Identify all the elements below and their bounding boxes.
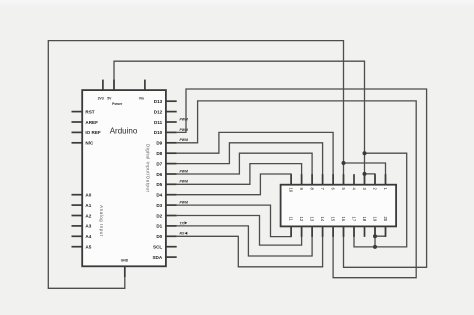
pin 7 stub	[322, 174, 324, 185]
svg-text:15: 15	[331, 217, 336, 222]
label TX arrow	[185, 221, 188, 224]
pin 19 stub	[374, 226, 376, 237]
pin 8 stub	[311, 174, 313, 185]
wire D10 to pin 16	[177, 89, 427, 267]
svg-text:SDA: SDA	[152, 255, 162, 260]
svg-text:A4: A4	[85, 234, 91, 239]
pin 5V stub	[113, 80, 115, 91]
svg-text:PWM: PWM	[180, 117, 188, 121]
pin 20 stub	[385, 226, 387, 237]
pin 3 stub	[364, 174, 366, 185]
pin A2 stub	[72, 215, 83, 217]
pin D8 stub	[166, 152, 177, 154]
pin 18 stub	[364, 226, 366, 237]
svg-text:16: 16	[341, 217, 346, 222]
pin 3V3 stub	[102, 80, 104, 91]
pin 11 stub	[290, 226, 292, 237]
svg-text:A1: A1	[85, 203, 91, 208]
svg-text:Vin: Vin	[139, 97, 144, 101]
svg-text:A3: A3	[85, 224, 91, 229]
svg-text:Digital Input/Output: Digital Input/Output	[145, 144, 150, 193]
pin 2 stub	[374, 174, 376, 185]
svg-text:RST: RST	[85, 109, 94, 114]
pin 1 stub	[385, 174, 387, 185]
pin D5 stub	[166, 183, 177, 185]
pin AREF stub	[72, 121, 83, 123]
svg-text:5V: 5V	[107, 97, 112, 101]
pin N/C stub	[72, 142, 83, 144]
pin Vin stub	[144, 80, 146, 91]
pin 10 stub	[290, 174, 292, 185]
svg-text:17: 17	[351, 217, 356, 222]
wire 5V branch wrapping right side down to pin 17	[354, 153, 407, 247]
wire D1 to pin 13	[177, 226, 312, 256]
svg-text:D11: D11	[154, 120, 163, 125]
pin D9 stub	[166, 142, 177, 144]
pin D3 stub	[166, 204, 177, 206]
pin 17 stub	[353, 226, 355, 237]
node junction pin19-pin17	[373, 245, 377, 249]
node 5V junction upper	[363, 151, 367, 155]
svg-text:N/C: N/C	[85, 141, 94, 146]
svg-text:D8: D8	[156, 151, 162, 156]
pin A0 stub	[72, 194, 83, 196]
wire D3 to pin 11	[177, 205, 291, 237]
pin 4 stub	[353, 174, 355, 185]
wire 5V branch to pin 2	[365, 174, 376, 185]
pin 15 stub	[332, 226, 334, 237]
svg-text:D13: D13	[154, 99, 163, 104]
node GND junction on pin5 drop	[342, 161, 346, 165]
pin SCL stub	[166, 246, 177, 248]
svg-text:TX: TX	[180, 221, 185, 225]
label RX arrow	[185, 232, 188, 235]
node 5V junction at pin2 branch	[363, 172, 367, 176]
wire D7 to pin 7	[177, 143, 323, 185]
svg-text:19: 19	[372, 217, 377, 222]
wire D2 to pin 12	[177, 216, 302, 246]
svg-text:PWM: PWM	[180, 169, 188, 173]
pin 16 stub	[343, 226, 345, 237]
svg-text:SCL: SCL	[153, 245, 162, 250]
wire pin19 to pin20 link	[375, 226, 386, 236]
pin 12 stub	[301, 226, 303, 237]
pin 14 stub	[322, 226, 324, 237]
svg-text:D1: D1	[156, 224, 162, 229]
svg-text:3V3: 3V3	[98, 97, 104, 101]
pin D7 stub	[166, 163, 177, 165]
svg-text:A2: A2	[85, 213, 91, 218]
pin A1 stub	[72, 204, 83, 206]
pin RST stub	[72, 111, 83, 113]
svg-text:D7: D7	[156, 161, 162, 166]
wire D6 to pin 8	[177, 153, 312, 185]
svg-text:D5: D5	[156, 182, 162, 187]
svg-text:A0: A0	[85, 193, 91, 198]
svg-text:12: 12	[299, 217, 304, 222]
pin D11 stub	[166, 121, 177, 123]
pin A3 stub	[72, 225, 83, 227]
svg-text:D0: D0	[156, 234, 162, 239]
svg-text:Power: Power	[112, 102, 123, 106]
svg-text:20: 20	[383, 217, 388, 222]
wire D0 to pin 14	[177, 226, 323, 266]
pin D2 stub	[166, 215, 177, 217]
svg-text:D10: D10	[154, 130, 163, 135]
svg-text:14: 14	[320, 217, 325, 222]
pin IO REF stub	[72, 131, 83, 133]
pin GND stub	[124, 266, 126, 277]
svg-text:D6: D6	[156, 172, 162, 177]
svg-text:RX: RX	[180, 232, 185, 236]
pin 9 stub	[301, 174, 303, 185]
wire D4 to pin 10	[177, 174, 291, 195]
pin D6 stub	[166, 173, 177, 175]
node junction pin19-pin20	[373, 234, 377, 238]
svg-text:11: 11	[289, 217, 294, 222]
svg-text:Analog Input: Analog Input	[99, 205, 104, 236]
wire GND net: GND pin down, around left frame, top run, down to pin 5	[48, 41, 343, 289]
pin 5 stub	[343, 174, 345, 185]
wire D8 to pin 6	[177, 132, 333, 184]
svg-text:PWM: PWM	[180, 180, 188, 184]
svg-text:18: 18	[362, 217, 367, 222]
svg-text:AREF: AREF	[85, 120, 98, 125]
pin SDA stub	[166, 256, 177, 258]
pin D4 stub	[166, 194, 177, 196]
svg-text:D12: D12	[154, 109, 163, 114]
pin D0 stub	[166, 235, 177, 237]
pin D12 stub	[166, 111, 177, 113]
pin 13 stub	[311, 226, 313, 237]
svg-text:PWM: PWM	[180, 128, 188, 132]
svg-text:D3: D3	[156, 203, 162, 208]
svg-text:A5: A5	[85, 245, 91, 250]
wire 5V net: 5V pin up, top run, down to pin 3	[114, 61, 365, 185]
pin D10 stub	[166, 131, 177, 133]
svg-text:GND: GND	[121, 259, 129, 263]
svg-text:PWM: PWM	[180, 201, 188, 205]
pin D13 stub	[166, 100, 177, 102]
svg-text:Arduino: Arduino	[110, 127, 138, 136]
Arduino U1 body	[82, 90, 166, 266]
svg-text:13: 13	[310, 217, 315, 222]
pin A4 stub	[72, 235, 83, 237]
svg-text:PWM: PWM	[180, 138, 188, 142]
wire D5 to pin 9	[177, 164, 302, 185]
svg-text:D4: D4	[156, 193, 162, 198]
pin D1 stub	[166, 225, 177, 227]
svg-text:IO REF: IO REF	[85, 130, 101, 135]
wire D9 to pin 15	[177, 101, 417, 278]
svg-text:D2: D2	[156, 213, 162, 218]
svg-text:D9: D9	[156, 141, 162, 146]
wire GND branch to pin 1	[344, 163, 386, 185]
pin A5 stub	[72, 246, 83, 248]
pin 6 stub	[332, 174, 334, 185]
GLCD U2 20-pin body	[281, 185, 397, 227]
wire pin 19 drop	[374, 226, 376, 247]
svg-text:10: 10	[289, 188, 294, 193]
